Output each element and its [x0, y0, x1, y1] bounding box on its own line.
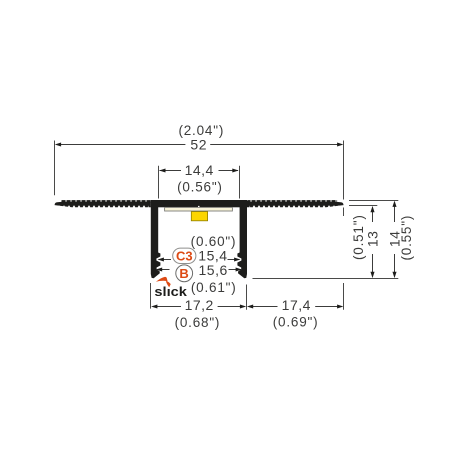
svg-text:17,2: 17,2 [185, 297, 214, 313]
dimension 17,4: extension line right [343, 283, 345, 310]
dimension 52: label 52 [190, 137, 207, 153]
dimension 15,4: label 15,4 [198, 248, 227, 264]
dimension 52: dimension line with arrows [55, 142, 344, 146]
diffuser plate [165, 207, 233, 211]
dimension 17,2: extension line left [150, 283, 152, 309]
dimension 17,2: label 17,2 [185, 297, 214, 313]
dimension 14,4: extension line right [239, 166, 241, 199]
dimension 14,4: extension line left [158, 166, 160, 199]
svg-text:(0.69"): (0.69") [273, 315, 319, 330]
dimension 13: dimension line with arrows [370, 206, 374, 278]
svg-text:17,4: 17,4 [282, 297, 311, 313]
svg-text:13: 13 [364, 231, 380, 248]
dimension 13: label (0.51") (rotated) [351, 214, 366, 260]
dimension 14v: dimension line with arrows [392, 201, 396, 279]
shared bottom extension line [253, 278, 399, 280]
dimension 15,6: right arrow [229, 267, 242, 271]
label (0.61") [191, 280, 237, 295]
badge B [176, 265, 193, 282]
dimension 14,4: dimension line with arrows [159, 168, 238, 172]
dimension 15,6: left arrow [156, 267, 170, 271]
profile left wing (serrated top, tapered tip) [55, 200, 151, 209]
dimension 17,2: label (0.68") [175, 315, 221, 330]
dimension 17,4: label 17,4 [282, 297, 311, 313]
center notch on bar underside [198, 206, 200, 208]
slick logo text [154, 285, 187, 299]
profile right wing (serrated top, tapered tip) [247, 200, 344, 209]
svg-text:(0.51"): (0.51") [351, 214, 366, 260]
dimension 52: extension line left [54, 141, 56, 196]
dimension 14v: label 14 (rotated) [386, 231, 402, 248]
dimension 14,4: label 14,4 [185, 162, 214, 178]
svg-text:(0.56"): (0.56") [177, 179, 223, 194]
dimension 14v: label (0.55") (rotated) [399, 215, 414, 261]
shared middle extension line [246, 285, 248, 310]
svg-text:(0.55"): (0.55") [399, 215, 414, 261]
dimension 14,4: label (0.56") [177, 179, 223, 194]
dimension 17,4: dimension line with arrows [247, 304, 344, 308]
dimension 17,2: dimension line with arrows [151, 304, 246, 308]
svg-text:(0.61"): (0.61") [191, 280, 237, 295]
dimension 13: label 13 (rotated) [364, 231, 380, 248]
left channel wall with retention hooks [151, 206, 161, 278]
dimension 15,4: right arrow [228, 257, 241, 261]
LED module [191, 212, 207, 221]
dimension 52: extension line right [343, 141, 345, 217]
svg-text:(0.68"): (0.68") [175, 315, 221, 330]
svg-text:slıck: slıck [154, 285, 187, 299]
slick logo orange swoosh [156, 277, 171, 287]
svg-text:B: B [179, 266, 188, 281]
svg-text:C3: C3 [176, 249, 193, 264]
dimension 15,4: left arrow [158, 257, 171, 261]
dimension 14v: extension line top [349, 200, 398, 202]
svg-text:14,4: 14,4 [185, 162, 214, 178]
profile raised center section over channel [151, 200, 247, 207]
right channel wall with retention hooks [237, 206, 247, 278]
dimension 17,4: label (0.69") [273, 315, 319, 330]
svg-text:15,6: 15,6 [199, 262, 228, 278]
dimension 52: label (2.04") [178, 123, 224, 138]
dimension 13: extension line top [349, 205, 377, 207]
svg-text:52: 52 [190, 137, 207, 153]
badge C3 [173, 248, 196, 263]
dimension 15,6: label 15,6 [199, 262, 228, 278]
svg-text:(2.04"): (2.04") [178, 123, 224, 138]
label (0.60") [191, 234, 237, 249]
